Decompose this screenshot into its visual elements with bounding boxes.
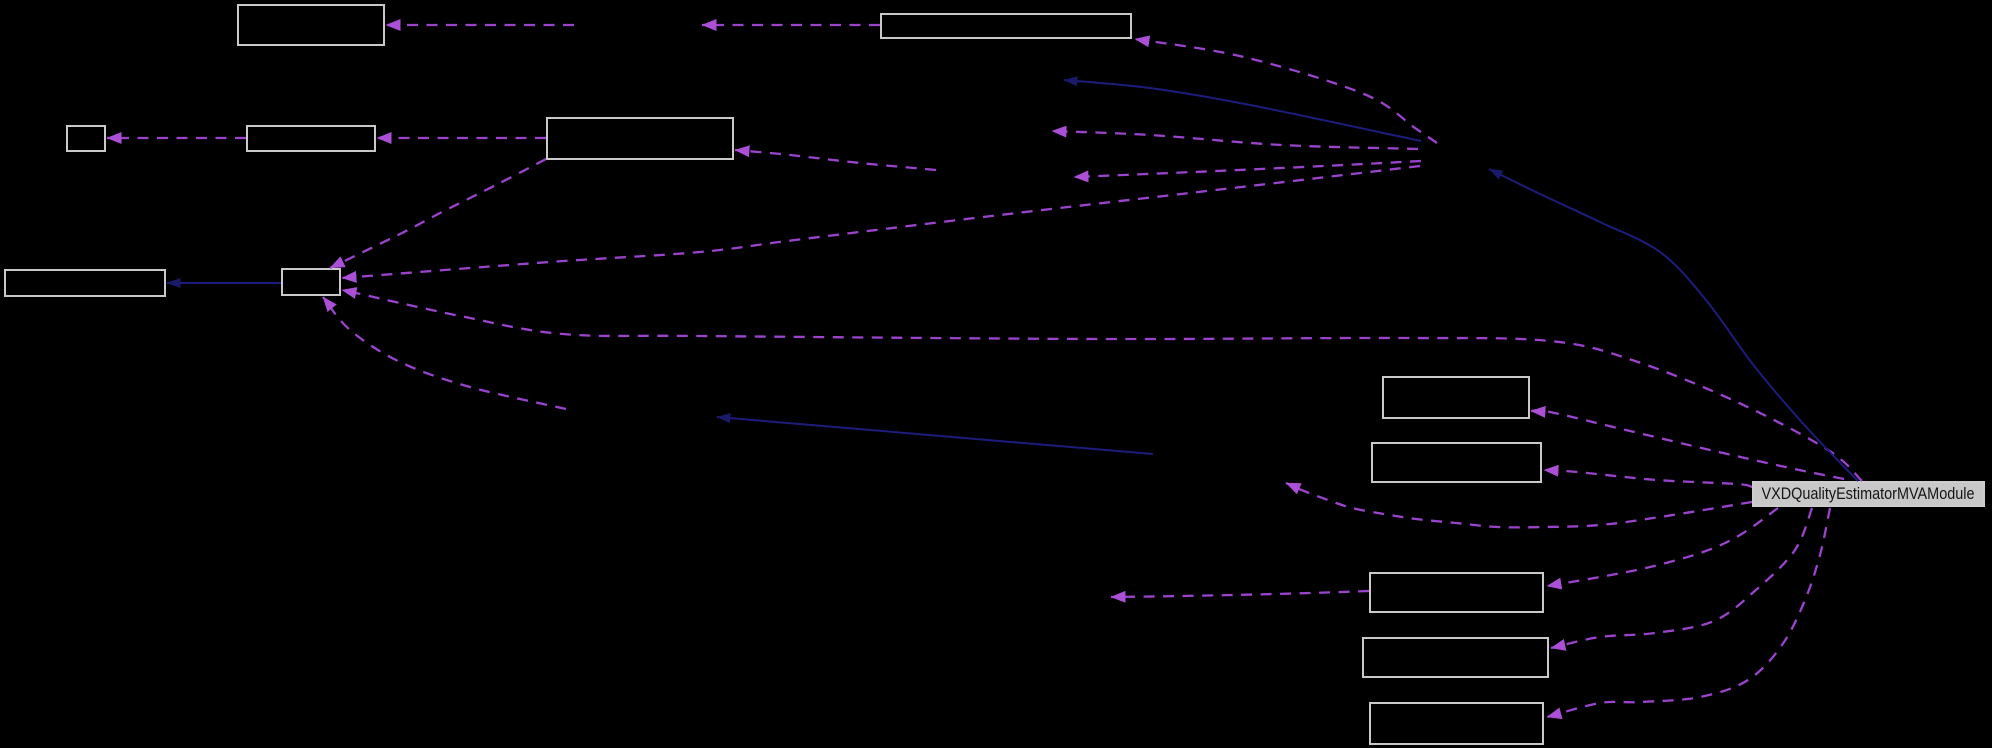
edge b3: X5 -> X6 (blue middle) (717, 417, 1153, 454)
node A (top-left class box) (238, 5, 384, 45)
node F (left class box) (5, 270, 165, 296)
node B (top middle class box) (881, 14, 1131, 38)
node M VXDQualityEstimatorMVAModule (current class, grey fill) (1753, 482, 1984, 506)
edge d4: E -> D (377, 137, 546, 139)
node E (two-line class box) (547, 118, 733, 159)
edge d13: M -> H (1531, 410, 1844, 479)
svg-text:VXDQualityEstimatorMVAModule: VXDQualityEstimatorMVAModule (1762, 485, 1975, 503)
node J (right column box 3) (1370, 573, 1543, 612)
node L (right column box 5) (1370, 703, 1543, 744)
edge b1: G -> F (blue inheritance) (167, 282, 281, 284)
node K (right column box 4) (1363, 638, 1548, 677)
edge d8: N1 -> X4 (1074, 161, 1421, 177)
edge d19: J -> invisible node X7 (1111, 591, 1369, 597)
edge d16: M -> J (1547, 508, 1778, 586)
edge d14: M -> I (1544, 470, 1752, 487)
edge b4: M -> N1 (blue big curve) (1489, 169, 1858, 481)
edge d1: invisible node X1 -> A (dashed usage) (386, 24, 574, 26)
edge d17: M -> K (1551, 508, 1812, 648)
node H (right column box 1) (1383, 377, 1529, 418)
edge d18: M -> L (1547, 508, 1830, 717)
node G (small hub box) (282, 269, 340, 295)
edge d7: invisible Module node N1 -> X3 (1052, 131, 1418, 149)
edge d11: M -> G (long top route) (342, 290, 1862, 481)
edge b2: N1 -> X2 (blue) (1064, 80, 1421, 141)
edge d3: D -> C (107, 137, 246, 139)
edge d10: N1 -> B corner (1135, 39, 1437, 143)
edge d5: invisible node X4 -> E (735, 150, 936, 170)
edge d15: M -> X5 (dip curve) (1286, 483, 1752, 527)
node D (247, 126, 375, 151)
node C (small left box) (67, 126, 105, 151)
edge d9: N1 -> G (long curve) (342, 166, 1420, 278)
edge d12: hidden source -> G (lower curve, visible part) (323, 297, 566, 409)
edge d6: E -> G (curved) (330, 159, 546, 268)
node I (right column box 2) (1372, 443, 1541, 482)
edge d2: B -> invisible node X1 (702, 24, 880, 26)
